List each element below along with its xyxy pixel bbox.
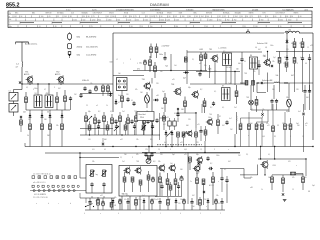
svg-text:104: 104 [64,16,67,18]
legend text 2 [77,47,98,49]
diode D26 [143,198,146,210]
svg-text:47k: 47k [266,123,269,125]
svg-text:4k7: 4k7 [258,49,261,51]
IF transformer S7 [222,85,231,100]
capacitor C33 [142,147,156,160]
svg-text:82: 82 [219,116,221,118]
svg-text:1k0: 1k0 [118,73,121,75]
capacitor C15 [240,52,243,70]
svg-text:7: 7 [140,213,141,215]
wire y110 r [251,105,289,110]
wire am row [240,82,313,84]
svg-text:1: 1 [160,213,161,215]
svg-text:4k7: 4k7 [228,161,231,163]
svg-text:10k: 10k [90,83,93,85]
wire y72 mid [196,71,240,73]
resistor R42 [49,119,52,147]
svg-text:n22: n22 [267,125,270,127]
resistor R83 [159,173,162,197]
svg-text:50Ω: 50Ω [77,54,81,56]
resistor R28 [235,85,238,104]
svg-text:n47: n47 [250,109,253,111]
svg-text:n15: n15 [197,124,200,126]
svg-text:1k8: 1k8 [140,92,143,94]
svg-text:100: 100 [110,62,113,64]
wire x196 v [195,112,197,128]
label selector AM [262,79,273,82]
wire FM drop left [112,33,114,112]
capacitor C48 [158,198,161,210]
svg-text:15k: 15k [114,197,117,199]
svg-text:100n: 100n [34,88,38,90]
svg-text:49: 49 [131,26,133,28]
svg-text:60: 60 [300,16,302,18]
svg-text:100: 100 [257,125,260,127]
svg-text:8,2: 8,2 [210,107,212,109]
svg-text:DIODEN: DIODEN [252,10,259,12]
svg-text:5p6: 5p6 [296,123,299,125]
wire tuner v152 [151,78,153,147]
svg-text:TS5: TS5 [209,49,212,51]
svg-text:5: 5 [137,63,138,65]
svg-text:15k: 15k [262,109,265,111]
svg-text:49: 49 [206,26,208,28]
svg-text:33k: 33k [286,97,289,99]
svg-text:90: 90 [266,16,268,18]
resistor R92h [291,172,296,175]
label 7p5 [165,66,168,68]
wire am verticals [29,83,61,95]
svg-text:80: 80 [286,16,288,18]
transistor TS3 [142,79,151,91]
IC block U1 [117,78,128,91]
svg-text:4u7: 4u7 [142,195,145,197]
transistor TS7 [191,90,198,98]
resistor R53 [111,114,114,135]
svg-text:d: d [70,203,71,205]
svg-text:8,2: 8,2 [210,163,212,165]
svg-text:6k8: 6k8 [48,189,51,191]
diode D13 [61,110,64,119]
wire x235 drop2 [234,134,236,147]
svg-text:452: 452 [163,124,166,126]
wire ts2 leads [59,82,63,84]
svg-text:1n: 1n [305,125,307,127]
left small parts [82,80,104,96]
capacitor C30b [102,182,105,193]
svg-text:510-1620 kHz: 510-1620 kHz [86,47,98,49]
svg-text:L2: L2 [116,59,118,61]
amp box U3 [119,166,157,197]
svg-text:S7: S7 [222,85,224,87]
svg-text:2,2uF/16V: 2,2uF/16V [162,46,171,48]
svg-text:5p6: 5p6 [312,185,315,187]
diode D2 [109,91,112,97]
svg-text:65: 65 [107,16,109,18]
svg-text:VOEDING: VOEDING [186,10,194,12]
bus dots [79,146,313,154]
wire FM feed [113,32,313,34]
resistor R58 [151,112,154,135]
wire antenna drop [19,67,23,85]
label 2k2 [23,112,26,114]
resistor R27 [203,98,206,113]
svg-text:6k8: 6k8 [186,125,189,127]
capacitor C412 [190,198,193,210]
svg-text:60: 60 [275,16,277,18]
resistor R25 [164,93,167,112]
svg-text:n22: n22 [166,117,169,119]
svg-text:120: 120 [214,71,217,73]
resistor R74 [272,104,275,147]
wire y196 [155,196,182,198]
svg-text:50: 50 [47,112,49,114]
svg-text:TS8: TS8 [134,111,137,113]
resistor R84 [166,173,169,196]
svg-text:100: 100 [112,16,115,18]
ecap C33b [151,176,154,182]
ecap C97 [150,198,153,210]
svg-text:2n2: 2n2 [234,107,237,109]
svg-text:10k: 10k [250,177,253,179]
resistor R14 [184,52,187,62]
resistor R55 [127,114,130,135]
svg-text:80: 80 [189,16,191,18]
svg-text:750: 750 [227,19,230,21]
label 1k2 [161,108,184,111]
svg-text:n47: n47 [100,195,103,197]
capacitor C22b [275,99,278,110]
wire y52 [187,51,262,53]
meter M1 [146,159,155,164]
label 2u2 [162,46,171,48]
diode D21 [171,130,174,146]
transistor TS14 [158,164,165,172]
svg-text:30: 30 [244,61,246,63]
wire out h174 [265,174,306,175]
wire bottom rail [85,209,225,211]
ecap C911 [182,198,185,210]
capacitor C10 [139,59,147,65]
note box [137,112,154,121]
svg-text:2k2: 2k2 [204,199,207,201]
svg-text:96: 96 [169,16,171,18]
svg-text:3: 3 [130,59,131,61]
svg-text:470: 470 [288,161,291,163]
svg-text:kHz: kHz [9,19,12,21]
svg-text:6k8: 6k8 [104,139,107,141]
wire top amp [148,146,149,147]
svg-text:0: 0 [180,213,181,215]
resistor R6 [121,91,124,109]
resistor R86 [196,172,205,206]
svg-text:1k0: 1k0 [124,154,127,156]
svg-text:92: 92 [146,16,148,18]
svg-text:500: 500 [83,19,86,21]
xmark out [282,193,284,195]
svg-text:3n9: 3n9 [118,95,121,97]
svg-text:1 2 3 4 5 6 7 8 9 1: 1 2 3 4 5 6 7 8 9 10 11 12 [33,173,51,175]
svg-text:82p: 82p [126,195,129,197]
svg-text:90: 90 [241,16,243,18]
wire drop x25 [24,143,26,147]
title DIAGRAM [150,2,169,7]
svg-text:1,4: 1,4 [16,64,19,66]
svg-text:4p7: 4p7 [183,78,186,80]
diode D22 [112,198,115,210]
resistor R81 [131,177,142,192]
svg-text:2p2: 2p2 [273,57,276,59]
potentiometer P2 [101,170,106,177]
capacitor C51 [97,119,100,124]
svg-text:75: 75 [156,16,158,18]
svg-text:45: 45 [104,149,106,151]
wire y84 ext [190,83,248,85]
svg-text:47k: 47k [136,154,139,156]
resistor R71 [248,112,251,147]
resistor R73 [261,118,264,147]
svg-text:560: 560 [180,169,183,171]
svg-text:1k: 1k [106,105,108,107]
xmark mid [102,138,104,147]
svg-text:2k7: 2k7 [287,125,290,127]
capacitor C21 [308,54,311,68]
capacitor C55 [130,119,133,124]
wire ts6 top [267,51,268,60]
svg-text:1n5: 1n5 [28,119,31,121]
diode D214 [207,198,210,210]
resistor R99 [167,197,170,210]
svg-text:88: 88 [125,16,127,18]
capacitor C37b [220,169,223,193]
svg-text:2n2: 2n2 [122,161,125,163]
svg-text:33k: 33k [92,161,95,163]
svg-text:270: 270 [168,199,171,201]
resistor R10 [150,44,153,59]
diode D12 [49,110,52,119]
wire bus y146 [25,146,313,148]
capacitor C30 [90,182,93,193]
svg-text:10u: 10u [139,63,142,65]
svg-text:88-108 MHz: 88-108 MHz [86,36,96,38]
resistor R65 [204,126,207,141]
svg-text:C1: C1 [9,91,11,93]
resistor R90 [271,175,274,190]
svg-text:0,1: 0,1 [268,154,270,156]
svg-text:DIAGRAM: DIAGRAM [150,2,169,7]
svg-text:4u7: 4u7 [300,57,303,59]
svg-text:1200: 1200 [166,19,170,21]
svg-text:94: 94 [130,16,132,18]
svg-text:15: 15 [307,47,309,49]
resistor R15b [204,52,207,71]
capacitor C11 [163,52,166,61]
resistor R23 [293,52,296,73]
svg-text:25: 25 [86,105,88,107]
svg-text:V OLT: V OLT [66,10,71,12]
svg-text:2n2: 2n2 [122,111,125,113]
wire c10 drop [145,66,150,71]
svg-text:4 MHz 30: 4 MHz 30 [82,80,89,82]
wire out misc [283,174,303,175]
dial scale [8,11,312,28]
svg-text:6k8: 6k8 [291,43,294,45]
svg-text:TS8: TS8 [244,73,247,75]
svg-text:n22: n22 [156,199,159,201]
trimmer C63 [246,29,250,33]
resistor R5 [149,56,152,72]
svg-text:n15: n15 [305,123,308,125]
svg-text:8,2: 8,2 [98,111,100,113]
dashed pcb edge [157,144,202,146]
svg-text:1n5: 1n5 [174,65,177,67]
legend tube symbol [67,32,71,41]
svg-text:100n: 100n [208,117,212,119]
capacitor C416 [220,198,223,210]
potentiometer P1 [89,170,97,177]
capacitor C5 [126,97,129,102]
svg-text:BEROM: BEROM [206,13,213,15]
svg-text:92: 92 [224,16,226,18]
svg-text:92: 92 [57,16,59,18]
svg-text:n15: n15 [184,154,187,156]
svg-text:550: 550 [136,19,139,21]
svg-text:n47: n47 [199,63,202,65]
svg-text:39k: 39k [252,83,255,85]
extra mid parts [87,116,159,147]
svg-text:96: 96 [161,16,163,18]
svg-text:49: 49 [55,26,57,28]
resistor R56 [135,112,138,135]
mid cluster wires [160,104,203,147]
svg-text:15: 15 [292,189,294,191]
svg-text:100n: 100n [216,155,220,157]
resistor R50 [85,112,88,135]
resistor R41 [41,119,44,147]
svg-text:240: 240 [175,26,178,28]
ecap C7 [145,92,150,108]
wire tuner h76 [113,75,144,77]
label block [0,0,1,1]
label 100 [110,62,113,64]
switch SK1 [85,201,99,208]
left extra column [20,116,23,132]
wire y152 mid [160,152,240,154]
resistor R21 [293,38,296,52]
IF transformer S9 [173,118,176,130]
wire x171 [170,54,171,71]
coil L6 [236,112,238,134]
wire bus y135 [80,134,160,136]
svg-text:1k: 1k [27,135,29,137]
svg-text:5: 5 [200,213,201,215]
resistor R54 [119,112,122,135]
control box [86,165,112,194]
gnd G1 [283,200,287,202]
svg-text:15k: 15k [136,139,139,141]
label 50 [47,112,49,114]
svg-text:650: 650 [219,19,222,21]
header rule [6,7,313,9]
svg-text:39k: 39k [160,71,163,73]
svg-text:68: 68 [305,63,307,65]
svg-text:BRUS: BRUS [109,13,113,15]
svg-text:9,1: 9,1 [192,59,194,61]
svg-text:DROITWICH: DROITWICH [93,13,103,15]
svg-text:2k2: 2k2 [230,129,233,131]
resistor R75b [284,112,287,147]
svg-text:68p: 68p [188,87,191,89]
extra left parts [79,84,109,98]
svg-text:1,6-4,8 MHz: 1,6-4,8 MHz [86,54,96,56]
svg-text:n15: n15 [188,163,191,165]
label amp [122,193,128,196]
wire ctrl left [79,153,119,178]
svg-text:a: a [36,203,37,205]
svg-text:100n: 100n [180,199,184,201]
wire bus y153 [45,152,240,154]
svg-text:MHz: MHz [9,26,12,28]
transistor TS2 [55,72,64,84]
resistor R26 [184,97,187,114]
svg-text:0,3: 0,3 [153,161,155,163]
svg-text:900: 900 [117,19,120,21]
svg-text:560: 560 [297,125,300,127]
diode D5b [286,45,289,61]
svg-text:Selector: FM: Selector: FM [257,42,268,45]
resistor R63 [182,132,185,147]
svg-text:65: 65 [49,16,51,18]
svg-text:60Ω: 60Ω [77,36,81,38]
svg-text:270: 270 [196,142,199,144]
legend text 3 [77,54,97,56]
wire out drops [260,147,276,160]
svg-text:2k2: 2k2 [23,112,26,114]
resistor R15 [200,52,203,71]
wire y51 [276,51,313,53]
svg-text:1k0: 1k0 [192,206,195,208]
svg-text:120: 120 [296,89,299,91]
legend transistor symbol [68,44,72,49]
diode D10 [29,110,32,119]
svg-text:68p: 68p [196,154,199,156]
resistor R80 [123,172,126,192]
svg-text:TS8: TS8 [246,97,249,99]
svg-text:o 6 a 3 8 0 0 L 1 0: o 6 a 3 8 0 0 L 1 0 [33,182,46,184]
svg-text:0,1: 0,1 [131,100,133,102]
resistor R82 [147,171,150,192]
title 855.2 [6,2,20,8]
resistor R76 [289,118,292,147]
svg-text:GOLFGEBIED: GOLFGEBIED [150,10,161,12]
wire x187 [186,50,188,80]
capacitor C24a [303,85,306,110]
coil L30 [285,30,299,34]
svg-text:31: 31 [244,26,246,28]
wire x3035 [303,104,305,152]
svg-text:TS9: TS9 [142,79,145,81]
wire gang [14,84,23,90]
svg-text:n68: n68 [250,187,253,189]
diode D20 [165,130,168,146]
svg-text:PIN 4: PIN 4 [140,117,144,119]
extra right parts [257,60,288,84]
svg-text:1,2: 1,2 [200,149,202,151]
wire out emitter [240,165,266,176]
svg-text:0,7: 0,7 [44,89,46,91]
svg-text:220: 220 [178,203,181,205]
svg-text:1k0: 1k0 [236,69,239,71]
